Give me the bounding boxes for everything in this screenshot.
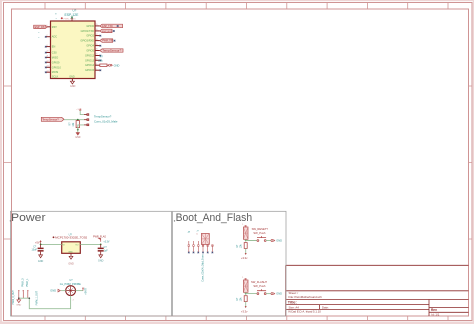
power symbol +5V	[35, 240, 42, 245]
switch SW1 pushbutton	[257, 236, 266, 241]
svg-text:SW_Push: SW_Push	[253, 284, 265, 288]
no-connect mark top pin	[71, 17, 73, 19]
junction SW1 node	[245, 240, 247, 242]
wire J2 pin3 to ground net	[78, 125, 84, 130]
U1 right pin NC crosses	[100, 35, 102, 71]
svg-text:1uF: 1uF	[104, 250, 109, 253]
wire SW1 to GND	[266, 240, 271, 242]
power symbol GND right of SW1	[271, 239, 282, 243]
wire TempSensor label to J2 pin2	[64, 119, 84, 121]
op U1 ESP-12E module	[38, 9, 101, 89]
svg-text:GPIO5: GPIO5	[86, 50, 94, 53]
power symbol GND at U3 left	[50, 289, 60, 293]
junction at C1 top	[40, 244, 42, 246]
svg-text:PWM_1: PWM_1	[26, 278, 29, 287]
svg-text:+3.3V: +3.3V	[76, 109, 82, 111]
global label ESP_TXD at right pin 1	[100, 24, 123, 28]
svg-text:+5V: +5V	[35, 242, 40, 245]
wire U2 to output	[80, 243, 100, 245]
resistor R5	[100, 64, 109, 67]
svg-text:PWM_0_OUT: PWM_0_OUT	[12, 290, 15, 305]
probe U3 body circle	[66, 286, 76, 296]
svg-text:+3.3v: +3.3v	[241, 309, 248, 313]
svg-text:16: 16	[96, 29, 98, 31]
svg-text:GND: GND	[16, 305, 21, 307]
U1 right pin names	[80, 25, 94, 72]
U1 right pins	[95, 26, 100, 70]
svg-text:10uF: 10uF	[32, 248, 38, 251]
U2 ground pin stub	[70, 253, 72, 256]
svg-text:U?: U?	[73, 9, 77, 13]
svg-text:GPIO12: GPIO12	[85, 55, 95, 58]
svg-text:21: 21	[96, 54, 98, 56]
svg-text:GND: GND	[68, 251, 73, 253]
svg-text:MISO: MISO	[52, 56, 58, 59]
svg-text:Id: 1/1: Id: 1/1	[432, 312, 440, 316]
svg-text:SW_RESET?: SW_RESET?	[252, 227, 269, 231]
svg-text:10: 10	[47, 51, 49, 53]
svg-text:MCP1700-3302E_TO92: MCP1700-3302E_TO92	[55, 235, 88, 239]
power symbol +3.3v under R4	[241, 306, 248, 313]
svg-text:Sheet: /: Sheet: /	[289, 291, 299, 295]
wire J2 pin1 to +3.3V	[80, 110, 84, 114]
connector J3 PWM input pins	[19, 292, 28, 299]
wire R2 bottom to ground	[77, 128, 79, 133]
svg-text:MOSI: MOSI	[52, 71, 59, 74]
svg-text:19: 19	[96, 44, 98, 46]
power symbol +3.3v under R3	[241, 253, 248, 260]
svg-text:ESP_RXD: ESP_RXD	[102, 31, 113, 33]
U1 left pin numbers	[47, 25, 49, 72]
U1 left pins	[46, 27, 51, 72]
svg-text:GND: GND	[276, 239, 282, 243]
wire U3 bottom to PWM connector	[29, 296, 70, 309]
regulator U2 body	[62, 242, 81, 254]
svg-text:PWM_0: PWM_0	[22, 278, 25, 287]
svg-text:GND: GND	[50, 289, 56, 293]
wire R4 to +3.3v	[245, 302, 247, 308]
ground symbol under C2	[98, 255, 104, 263]
svg-text:Date:: Date:	[322, 305, 329, 309]
svg-text:Title:: Title:	[288, 301, 297, 305]
svg-text:20: 20	[96, 49, 98, 51]
ground symbol under J3	[16, 298, 21, 306]
wire GND to U3	[61, 290, 66, 292]
marker after ESP_RXD	[113, 30, 115, 32]
ground symbol under U2	[68, 256, 74, 265]
Power section box	[10, 211, 172, 316]
svg-text:17: 17	[96, 34, 98, 36]
svg-text:Boot_And_Flash: Boot_And_Flash	[176, 212, 253, 224]
svg-text:GPIO10: GPIO10	[52, 66, 62, 69]
marker after ESP_TXD	[117, 25, 119, 27]
global label PWM_OE at right pin 4	[100, 39, 116, 43]
svg-text:GND: GND	[70, 85, 76, 88]
connector J2 body pads	[87, 114, 89, 126]
global label TempSensor at right pin 6	[100, 49, 123, 53]
svg-text:GPIO0: GPIO0	[86, 25, 94, 28]
svg-text:5: 5	[96, 68, 97, 70]
svg-text:ESP-12E: ESP-12E	[65, 13, 80, 17]
resistor R3	[244, 243, 247, 249]
connector J4 NC crosses	[188, 252, 213, 254]
svg-text:GND: GND	[68, 263, 74, 266]
U1 top pin VCC	[71, 18, 73, 22]
svg-text:EN: EN	[52, 46, 56, 49]
svg-text:GND: GND	[98, 259, 104, 262]
svg-text:File: PwmMotherboard.sch: File: PwmMotherboard.sch	[289, 295, 323, 299]
power symbol +3.3V sensor	[76, 108, 82, 111]
connector J4 upper stubs	[189, 241, 199, 245]
svg-text:GND: GND	[114, 63, 120, 67]
power symbol +BATT	[82, 287, 88, 295]
svg-text:SW_FLASH?: SW_FLASH?	[251, 280, 267, 284]
title block	[286, 265, 469, 316]
svg-text:GPIO9: GPIO9	[52, 61, 60, 64]
svg-text:TempSensor?: TempSensor?	[94, 115, 112, 119]
svg-text:1.5k: 1.5k	[98, 60, 103, 63]
svg-text:14: 14	[47, 70, 49, 72]
resistor R4	[244, 296, 247, 302]
connector J2 pins	[84, 115, 87, 125]
jumper J6 body hatched (flash)	[242, 277, 248, 293]
PWR_FLAG dot near top pin	[61, 17, 63, 19]
svg-text:13: 13	[47, 66, 49, 68]
svg-text:CS0: CS0	[52, 52, 57, 55]
svg-text:GPIO3/RXD: GPIO3/RXD	[80, 40, 94, 43]
svg-text:GND: GND	[69, 76, 75, 79]
svg-text:GPIO15: GPIO15	[85, 69, 95, 72]
svg-text:GPIO4: GPIO4	[86, 45, 94, 48]
svg-text:ESP_RST: ESP_RST	[35, 26, 47, 29]
connector J4 pins down	[189, 245, 213, 253]
global label TempSensor (sensor circuit)	[41, 117, 64, 121]
wire node to SW2	[246, 292, 257, 293]
U2 pin names	[63, 245, 79, 254]
connector J3 pads	[18, 290, 28, 291]
global label ESP_RST at U1 pin 1	[34, 25, 48, 29]
svg-text:+BATT: +BATT	[85, 287, 88, 295]
junction at R2 bottom	[77, 129, 79, 131]
svg-text:VO: VO	[75, 245, 78, 247]
wire R3 to +3.3v	[245, 248, 247, 254]
svg-text:GPIO13: GPIO13	[85, 59, 95, 62]
jumper J5 body hatched (reset)	[242, 224, 248, 240]
svg-text:GPIO14: GPIO14	[85, 64, 95, 67]
wire node to SW1	[246, 239, 257, 240]
svg-text:+3.3v: +3.3v	[241, 256, 248, 260]
svg-text:4: 4	[96, 63, 97, 65]
U1 body	[51, 21, 96, 79]
svg-text:ESP_TXD: ESP_TXD	[102, 26, 113, 28]
ground symbol under C1	[38, 255, 44, 263]
power flag PWR_FLAG	[93, 235, 106, 241]
svg-text:PWR_FLAG: PWR_FLAG	[64, 18, 76, 21]
U1 bottom pin GND	[71, 79, 73, 82]
svg-text:Conn_01x03_Male: Conn_01x03_Male	[94, 119, 118, 123]
svg-text:GPIO2: GPIO2	[86, 35, 94, 38]
svg-text:18: 18	[96, 39, 98, 41]
svg-text:TempSensor?: TempSensor?	[102, 50, 122, 53]
svg-text:15: 15	[96, 24, 98, 26]
svg-text:KiCad E.D.A. kicad 5.1.10: KiCad E.D.A. kicad 5.1.10	[289, 310, 322, 314]
svg-text:2: 2	[47, 35, 48, 37]
marker after PWM_OE	[114, 40, 116, 42]
wire SW2 to GND	[266, 293, 271, 295]
Boot_And_Flash section box	[173, 211, 287, 316]
junction on TempSensor wire	[77, 119, 79, 121]
wire input to U2	[41, 243, 62, 245]
wire U3 to +BATT	[76, 290, 84, 292]
svg-text:3: 3	[47, 45, 48, 47]
junction SW2 node	[245, 293, 247, 295]
svg-text:SW_Push: SW_Push	[253, 231, 265, 235]
global label ESP_RXD at right pin 2	[100, 29, 115, 33]
capacitor C1 polarized	[38, 244, 44, 255]
svg-text:PWM_1_OUT: PWM_1_OUT	[36, 290, 39, 305]
svg-text:ADC: ADC	[52, 36, 57, 39]
svg-text:GPIO1/TXD: GPIO1/TXD	[81, 30, 95, 33]
svg-text:12: 12	[47, 61, 49, 63]
resistor R2 (pull)	[76, 121, 79, 128]
regulator U2 value MCP1700-3302E_TO92	[53, 235, 88, 239]
svg-text:GND: GND	[276, 292, 282, 296]
ground symbol sensor	[75, 133, 80, 140]
svg-text:TempSensor?: TempSensor?	[42, 118, 59, 122]
svg-text:SCLK: SCLK	[52, 75, 59, 78]
capacitor C2 polarized	[98, 244, 104, 255]
svg-text:PWM_OE: PWM_OE	[102, 41, 113, 43]
svg-text:GND: GND	[38, 260, 44, 263]
svg-text:11: 11	[47, 56, 49, 58]
ground symbol under U1	[70, 81, 74, 84]
U1 left pin names	[52, 26, 62, 79]
power symbol GND right of SW2	[271, 292, 282, 296]
svg-text:+3.3V: +3.3V	[103, 241, 110, 243]
switch SW2 pushbutton	[257, 289, 266, 294]
junction J3 pin1	[18, 297, 20, 299]
U1 left pin NC crosses	[45, 36, 47, 73]
connector J4 pads	[188, 245, 213, 247]
svg-text:Power: Power	[11, 212, 46, 224]
svg-text:RST: RST	[52, 26, 57, 29]
svg-text:Conn_02x04_Odd_Even: Conn_02x04_Odd_Even	[201, 254, 204, 282]
junction J3 riser	[29, 297, 31, 299]
power symbol GND right of R5	[109, 63, 120, 67]
junction at C2 top	[100, 244, 102, 246]
U1 right pin numbers	[96, 24, 98, 70]
connector J4 body hatched	[201, 233, 209, 244]
svg-text:GND: GND	[75, 137, 80, 139]
wire J3 bus	[19, 297, 30, 299]
